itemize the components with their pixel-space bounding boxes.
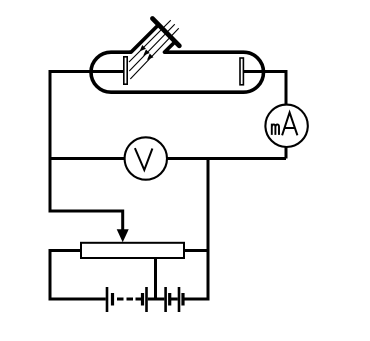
ray 3 arrowhead (147, 54, 153, 60)
potentiometer R1 body (81, 243, 184, 258)
wire wiper feed (50, 211, 123, 230)
envelope gap for window neck (131, 48, 165, 56)
anode plate A (240, 58, 243, 85)
wire battery mid segment (148, 298, 165, 301)
battery cell B2 long plate (145, 287, 148, 312)
light ray 1 (129, 20, 171, 62)
wire left vertical (49, 70, 52, 213)
battery cell B4 long plate (178, 287, 181, 312)
battery cell B3 short plate (168, 293, 171, 306)
battery cell B1 long plate (106, 287, 109, 312)
window cap plate (153, 19, 180, 46)
wire right branch vertical (207, 159, 210, 301)
wire cathode lead (50, 70, 124, 73)
battery cell B1 short plate (111, 293, 114, 306)
wire anode lead and right vertical through mA (244, 72, 286, 159)
wiper arrowhead (117, 229, 129, 242)
battery cell B2 short plate (141, 293, 144, 306)
phototube envelope (91, 52, 264, 92)
wire potentiometer left terminal (50, 251, 82, 301)
battery cell B3 long plate (164, 287, 167, 312)
light ray 3 (130, 28, 178, 79)
light ray 2 (129, 24, 174, 71)
ray 1 arrowhead (140, 45, 146, 51)
cathode plate K (124, 57, 127, 84)
window neck right wall (165, 42, 176, 52)
voltmeter V circle (125, 137, 167, 179)
wire battery right segment (184, 298, 209, 301)
wire potentiometer right terminal (184, 249, 210, 252)
milliammeter label m (272, 124, 279, 135)
voltmeter V label (135, 148, 153, 170)
ray 2 arrowhead (143, 49, 149, 55)
milliammeter label A (282, 113, 297, 136)
wire bottom left to battery (49, 298, 106, 301)
wire battery segment between cells (171, 298, 178, 301)
battery cell B4 short plate (181, 293, 184, 306)
wire voltmeter horizontal (49, 157, 287, 160)
window neck left wall (129, 25, 159, 52)
milliammeter mA circle (265, 105, 307, 147)
wire dashed battery section (117, 298, 141, 301)
wire battery tap junction (154, 258, 157, 301)
